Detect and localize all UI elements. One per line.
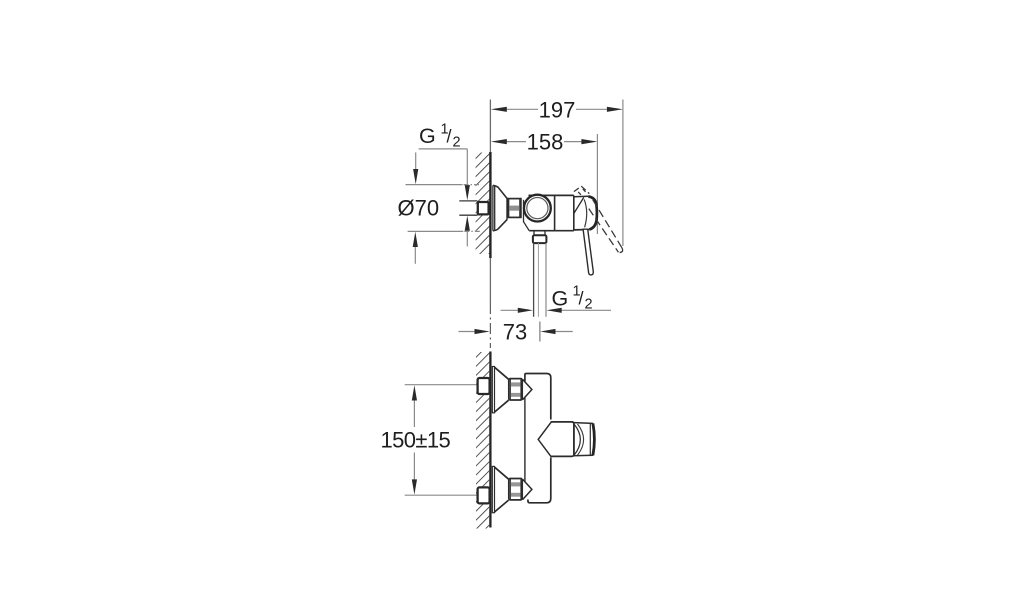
dimension 197 — [491, 97, 623, 122]
outlet pipe G 1/2 down (side view) — [534, 243, 546, 317]
handle chevron cone (front view) — [538, 422, 551, 457]
bottom union nipple square (front view) — [478, 487, 490, 503]
label Ø70 — [398, 195, 440, 220]
svg-text:197: 197 — [539, 97, 576, 122]
top union cone into body — [523, 379, 532, 399]
lever cap cylinder seen end-on (front view) — [574, 423, 595, 456]
svg-text:158: 158 — [527, 130, 564, 155]
dashed lever (alternate open position) — [589, 200, 623, 253]
svg-text:G: G — [552, 287, 569, 311]
dashed cap peak (alternate position) — [574, 186, 589, 195]
Ø70 upper arrow (pointing down) — [413, 152, 418, 184]
dimension 150±15 extension lines — [405, 385, 478, 496]
svg-text:150±15: 150±15 — [380, 427, 450, 452]
svg-text:G: G — [419, 124, 436, 148]
G 1/2 lower arrow of stub (pointing up) — [465, 216, 470, 247]
shower outlet boss (side view) — [534, 231, 545, 236]
svg-text:73: 73 — [503, 320, 527, 345]
bottom escutcheon (front view) — [492, 466, 508, 512]
outlet flange nut (side view) — [533, 235, 547, 243]
top escutcheon (front view) — [492, 367, 508, 413]
Ø70 lower arrow (pointing up) — [413, 232, 418, 264]
top union nipple square (front view) — [478, 378, 490, 394]
outlet pipe centreline — [539, 322, 541, 342]
extension line right for 158 (front of cap) — [596, 134, 598, 234]
wall surface line (side view, also left extension line for 197/158) — [489, 100, 491, 304]
wall surface line (front view) — [489, 352, 491, 528]
escutcheon (side view, bell shape at wall) — [493, 185, 507, 230]
union nipple square (side view) — [478, 202, 489, 214]
svg-text:Ø70: Ø70 — [398, 195, 440, 220]
dimension Ø70 bottom extension line — [408, 230, 480, 232]
cartridge cover circles (side view) — [524, 195, 551, 222]
leader bracket from G 1/2 label — [419, 149, 470, 200]
cartridge housing cylinder (front view) — [551, 422, 574, 457]
valve body behind cartridge (side view) — [524, 195, 574, 230]
extension line right for 197 (tip of open lever) — [622, 100, 624, 247]
G 1/2 wall stub pipe (side view) — [459, 201, 477, 215]
wall hatching (front view) — [476, 352, 489, 529]
connection nut with knurl (side view) — [508, 199, 521, 218]
dimension Ø70 top extension line — [406, 184, 481, 186]
bottom connection nut (front view) — [509, 479, 522, 500]
G 1/2 outlet arrows (pointing at pipe walls) — [501, 308, 611, 313]
dimension 150±15 line and arrows — [380, 385, 450, 494]
dimension 73 — [459, 320, 573, 345]
svg-text:2: 2 — [453, 135, 461, 151]
wall hatching (side view) — [476, 153, 490, 255]
wall centreline dash-dot between views — [489, 303, 491, 348]
cap / dome (side view, solid position) — [574, 196, 597, 230]
dimension 158 — [491, 130, 598, 155]
bottom union cone into body — [523, 479, 532, 499]
svg-text:/: / — [447, 127, 452, 147]
svg-text:/: / — [579, 289, 584, 309]
lever handle (solid, closed position) — [583, 229, 593, 275]
top connection nut (front view) — [509, 379, 522, 400]
label G 1/2 (lower, outlet thread) — [552, 284, 593, 313]
mixer body outline (front view) — [525, 374, 551, 503]
label G 1/2 (upper, wall union thread) — [419, 122, 461, 151]
